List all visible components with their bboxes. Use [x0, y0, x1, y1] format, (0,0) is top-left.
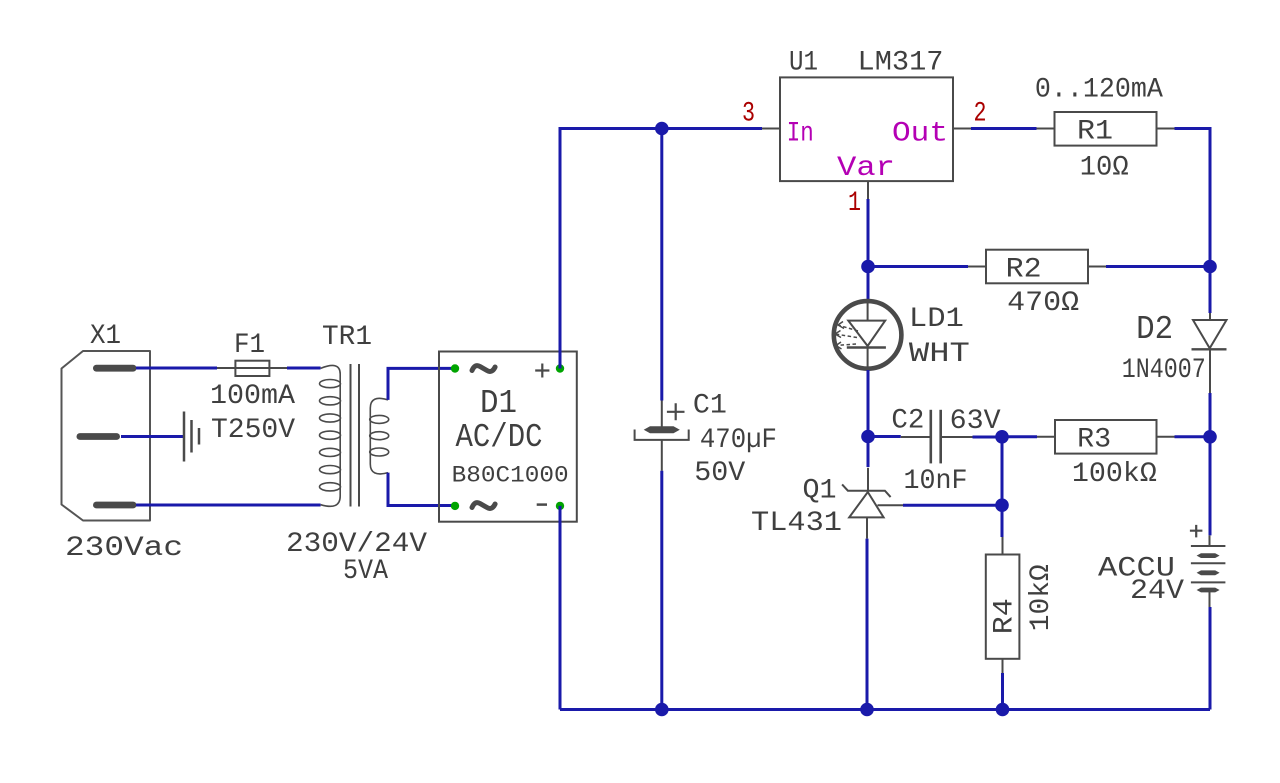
- svg-text:D1: D1: [480, 385, 517, 422]
- svg-text:10nF: 10nF: [904, 466, 968, 497]
- wire D2 cathode to R3 junction: [1209, 393, 1212, 437]
- wire C2 to node FB: [973, 436, 1003, 439]
- wire D1 plus to node IN: [560, 129, 762, 369]
- svg-text:470Ω: 470Ω: [1007, 288, 1079, 319]
- wire R1 to D2 cathode rail: [1175, 129, 1211, 267]
- junction GND at Q1: [860, 703, 874, 717]
- wire node K to C2: [868, 435, 901, 438]
- wire node FB to node FB2: [1001, 437, 1004, 505]
- svg-text:24V: 24V: [1130, 576, 1184, 607]
- D1 pad AC2: [451, 502, 459, 510]
- wire node FB to R3: [1002, 435, 1037, 438]
- svg-text:5VA: 5VA: [343, 556, 388, 587]
- svg-text:Out: Out: [892, 119, 948, 150]
- svg-text:3: 3: [742, 99, 755, 130]
- svg-text:C1: C1: [693, 391, 727, 422]
- wire node FB2 to R4: [1001, 505, 1004, 537]
- junction node IN at C1 branch: [655, 122, 669, 136]
- D1 pad minus: [556, 502, 564, 510]
- earth ground PE: [184, 412, 199, 462]
- svg-text:T250V: T250V: [211, 415, 295, 446]
- wire TR1 secondary bottom to D1: [388, 473, 455, 506]
- resistor R4: [986, 537, 1020, 673]
- junction node K: [861, 430, 875, 444]
- X1 pin L blade: [93, 365, 137, 372]
- svg-text:10kΩ: 10kΩ: [1026, 564, 1057, 631]
- wire F1 to TR1 primary: [287, 367, 321, 370]
- fuse F1: [217, 361, 287, 376]
- shunt regulator Q1 TL431: [842, 468, 903, 539]
- wire R3 junction to battery ACCU: [1209, 437, 1212, 536]
- resistor R1: [1037, 112, 1175, 146]
- capacitor C1: [635, 401, 689, 471]
- wire X1 pin N to TR1 primary: [136, 504, 321, 507]
- svg-text:TL431: TL431: [751, 508, 842, 539]
- junction node ADJ: [861, 260, 875, 274]
- svg-text:U1: U1: [789, 48, 818, 79]
- resistor R2: [968, 250, 1106, 284]
- svg-text:R1: R1: [1077, 117, 1113, 148]
- connector X1: [62, 351, 151, 521]
- wire D1 minus down to GND rail: [559, 506, 562, 710]
- bridge rectifier D1: [439, 352, 577, 522]
- wire node ADJ to R2: [868, 265, 968, 268]
- wire node IN down to C1: [660, 129, 663, 401]
- transformer TR1 core: [351, 364, 360, 507]
- svg-text:10Ω: 10Ω: [1080, 153, 1129, 184]
- svg-text:X1: X1: [90, 321, 121, 352]
- wire X1 pin L to fuse F1: [136, 367, 217, 370]
- junction R3 right: [1203, 430, 1217, 444]
- svg-text:C2: C2: [891, 406, 924, 437]
- svg-text:0..120mA: 0..120mA: [1035, 75, 1163, 106]
- LED LD1: [834, 301, 902, 369]
- wire R2 to junction: [1106, 265, 1210, 268]
- resistor R3: [1037, 420, 1175, 454]
- svg-text:100mA: 100mA: [210, 381, 295, 412]
- D1 pad plus: [556, 364, 564, 372]
- junction node FB: [995, 430, 1009, 444]
- X1 pin N blade: [93, 502, 137, 509]
- junction R2 right: [1203, 260, 1217, 274]
- wire TR1 secondary top to D1: [388, 368, 455, 400]
- svg-text:100kΩ: 100kΩ: [1072, 459, 1157, 490]
- X1 pin PE blade: [77, 433, 121, 440]
- svg-text:50V: 50V: [694, 458, 745, 489]
- svg-text:R3: R3: [1077, 425, 1111, 456]
- svg-text:AC/DC: AC/DC: [456, 419, 543, 456]
- wire node K to Q1 cathode: [867, 437, 870, 468]
- wire Q1 ref to node FB2: [903, 504, 1002, 507]
- svg-text:63V: 63V: [950, 406, 1001, 437]
- regulator U1: [762, 77, 971, 199]
- svg-text:D2: D2: [1136, 311, 1173, 348]
- battery ACCU: [1190, 525, 1226, 607]
- junction GND at C1: [655, 703, 669, 717]
- svg-text:2: 2: [974, 99, 987, 130]
- svg-text:TR1: TR1: [322, 322, 372, 353]
- svg-text:1: 1: [848, 188, 861, 219]
- wire X1 pin PE to earth: [121, 435, 183, 438]
- svg-text:470µF: 470µF: [700, 425, 777, 456]
- svg-text:R2: R2: [1006, 255, 1042, 286]
- junction GND at R4: [996, 703, 1010, 717]
- wire R3 to battery rail: [1175, 435, 1211, 438]
- diode D2: [1192, 313, 1227, 393]
- wire C1 to GND rail: [660, 471, 663, 710]
- wire Q1 anode to GND rail: [866, 539, 869, 710]
- svg-text:In: In: [787, 119, 814, 150]
- svg-text:Var: Var: [837, 153, 895, 184]
- svg-text:230Vac: 230Vac: [65, 533, 183, 564]
- transformer TR1 primary winding: [320, 365, 341, 506]
- wire LD1 to node K: [867, 370, 870, 437]
- svg-text:B80C1000: B80C1000: [452, 463, 569, 489]
- GND rail wire: [560, 708, 1210, 711]
- svg-text:Q1: Q1: [803, 476, 837, 507]
- transformer TR1 secondary winding: [370, 398, 389, 474]
- D1 pad AC1: [451, 364, 459, 372]
- junction node FB2: [995, 498, 1009, 512]
- svg-text:LM317: LM317: [858, 48, 944, 79]
- svg-text:WHT: WHT: [909, 339, 970, 370]
- wire R4 to GND rail: [1001, 673, 1004, 710]
- svg-text:R4: R4: [990, 598, 1021, 634]
- svg-text:1N4007: 1N4007: [1122, 355, 1206, 386]
- wire junction to D2 anode: [1209, 267, 1212, 314]
- svg-text:F1: F1: [234, 330, 265, 361]
- wire U1 Out to R1: [971, 127, 1037, 130]
- wire battery to GND rail: [1209, 607, 1212, 710]
- capacitor C2: [901, 410, 973, 464]
- svg-text:LD1: LD1: [909, 304, 964, 335]
- wire node ADJ to LD1: [867, 267, 870, 300]
- wire U1 Var to node ADJ: [867, 199, 870, 267]
